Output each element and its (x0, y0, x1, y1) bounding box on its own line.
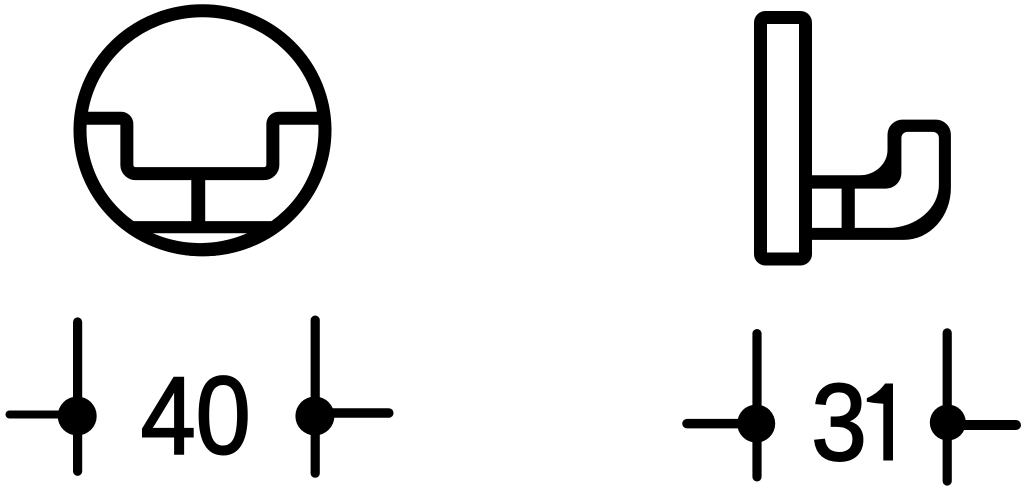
svg-text:40: 40 (141, 355, 251, 478)
dimension 31: value 1 (custom narrow glyph) (867, 384, 893, 461)
dimension 31: right tick (943, 333, 952, 481)
dimension 31: left dot (737, 405, 775, 443)
dimension Ø40: right leader (315, 408, 389, 418)
dimension 31: left leader (687, 419, 750, 429)
dimension 31: right leader (948, 420, 1016, 430)
svg-text:3: 3 (811, 362, 867, 484)
dimension Ø40: left leader (10, 411, 78, 419)
dimension Ø40: right tick (311, 320, 320, 473)
front view: hook arm seen head-on (U with flared wings) (77, 118, 327, 173)
dimension 31: right dot (930, 405, 966, 441)
dimension Ø40: left dot (58, 397, 97, 436)
dimension Ø40: left tick (73, 322, 82, 471)
dimension Ø40: right dot (295, 397, 334, 436)
front view: hook stem (191, 168, 205, 226)
side view: hook arm tube (outline with interior, elbow up) (800, 120, 951, 240)
side view: seam line across arm (842, 188, 855, 230)
front view: round backplate (circle, Ø40) (80, 11, 325, 250)
side view: wall plate (rounded rect) (761, 18, 806, 260)
dimension 31: left tick (752, 334, 761, 477)
